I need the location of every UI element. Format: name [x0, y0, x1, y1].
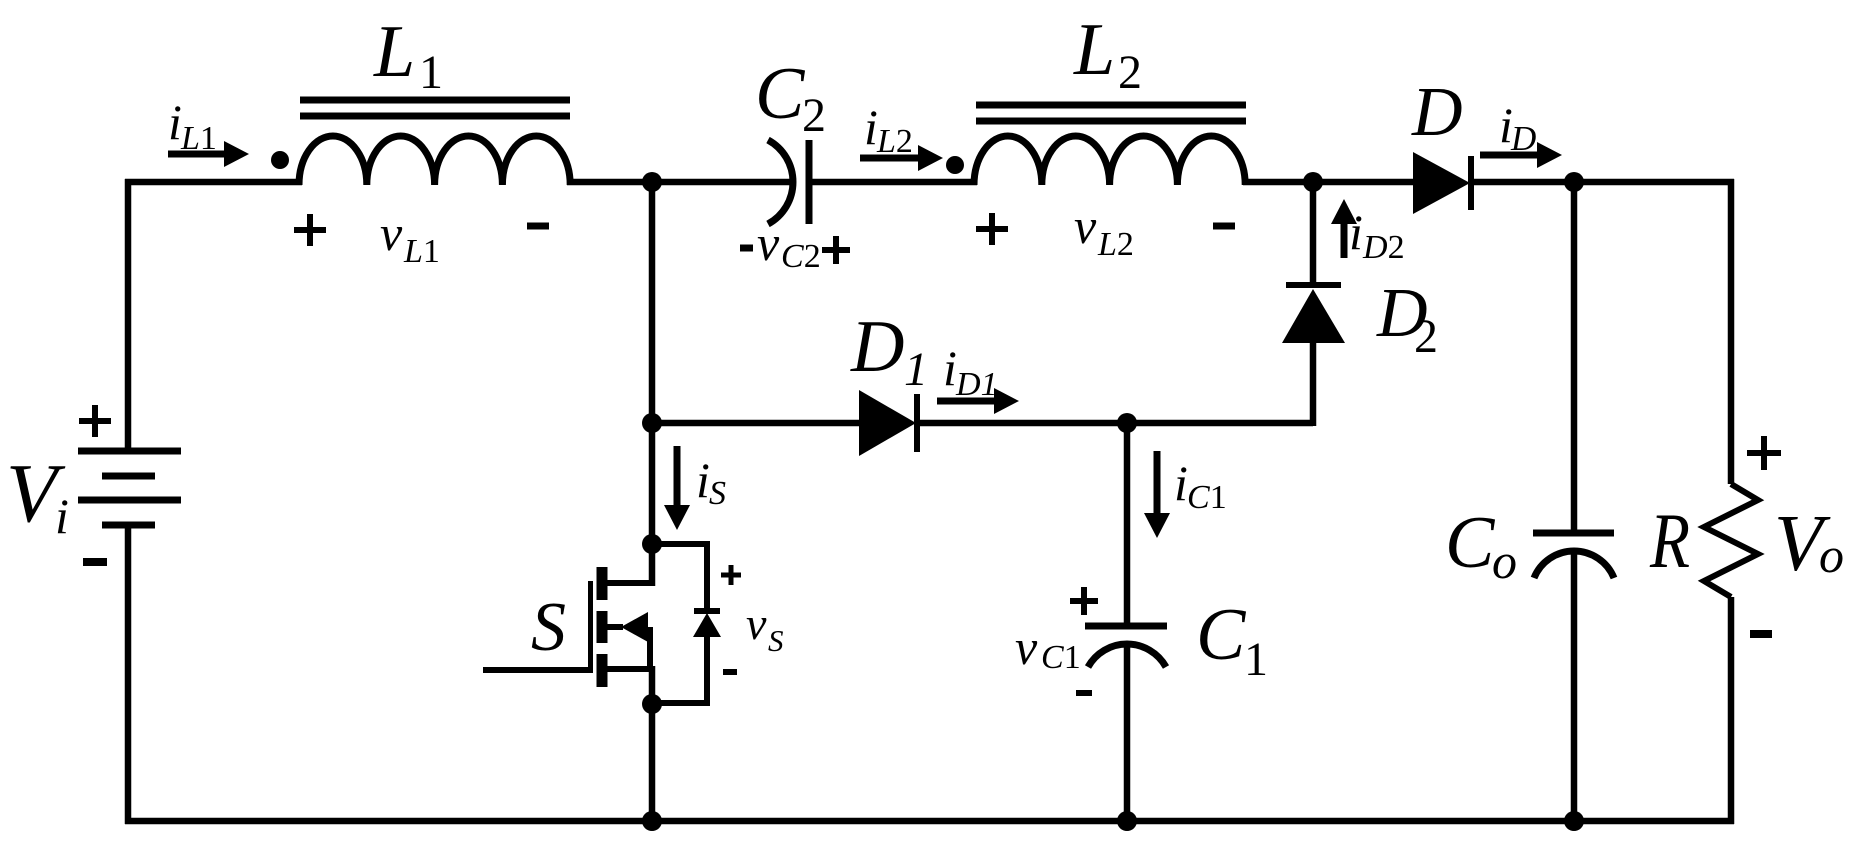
- arrow i_D1: [937, 398, 996, 405]
- svg-text:C1: C1: [1041, 639, 1081, 676]
- arrow i_D: [1480, 152, 1539, 159]
- svg-text:i: i: [864, 99, 878, 155]
- svg-text:L1: L1: [403, 233, 440, 270]
- capacitor C1 curved plate: [1088, 644, 1166, 667]
- svg-text:i: i: [168, 94, 182, 150]
- label C1 minus: [1076, 690, 1092, 696]
- body diode of S: top link: [652, 544, 707, 611]
- label v_C2 plus: [822, 236, 850, 264]
- svg-text:S: S: [768, 623, 784, 658]
- battery Vi plate 3 long: [78, 497, 181, 504]
- arrow i_L2: [860, 155, 920, 162]
- body diode bottom link: [652, 637, 707, 703]
- label v_L2 plus: [976, 213, 1008, 245]
- svg-text:v: v: [1015, 619, 1038, 675]
- svg-text:C: C: [755, 53, 806, 135]
- label Vi minus: [83, 558, 107, 566]
- wire C1 vertical upper: [1124, 423, 1131, 623]
- MOSFET S body drop wire: [647, 627, 653, 672]
- junction dot bottom Co: [1564, 811, 1584, 831]
- arrow i_D2: [1341, 222, 1348, 258]
- svg-text:L: L: [1073, 9, 1115, 91]
- svg-text:D1: D1: [955, 366, 998, 403]
- wire top rail C2 to L2: [809, 179, 977, 186]
- inductor L1 core bar upper: [300, 97, 570, 104]
- wire D1 rail right: [916, 420, 1313, 427]
- svg-text:R: R: [1649, 498, 1690, 585]
- arrow i_L1: [168, 151, 230, 158]
- label Vo plus: [1747, 436, 1781, 470]
- label v_S plus: [721, 565, 741, 585]
- svg-text:i: i: [943, 340, 957, 396]
- svg-text:o: o: [1492, 533, 1517, 589]
- arrow i_C1: [1154, 451, 1161, 516]
- battery Vi plate 2 short: [102, 473, 155, 480]
- svg-text:D: D: [850, 306, 904, 388]
- MOSFET S source lead: [602, 666, 652, 672]
- label v_L2 minus: [1213, 223, 1235, 230]
- inductor L2 polarity dot: [946, 156, 964, 174]
- svg-text:S: S: [709, 475, 726, 512]
- svg-text:v: v: [757, 215, 780, 271]
- svg-text:L: L: [373, 11, 415, 93]
- wire top rail L1 to C2: [567, 179, 791, 186]
- svg-text:D2: D2: [1362, 229, 1405, 266]
- inductor L1 coil: [299, 136, 570, 185]
- resistor R zigzag: [1704, 484, 1758, 597]
- wire left rail lower: [125, 525, 132, 824]
- wire right rail lower: [1728, 597, 1735, 824]
- capacitor Co curved plate: [1534, 551, 1614, 578]
- arrow i_S: [674, 446, 681, 508]
- diode D triangle: [1413, 152, 1470, 214]
- junction dot MOSFET drain: [642, 534, 662, 554]
- junction dot D1 left: [642, 413, 662, 433]
- wire bottom rail: [125, 818, 1734, 825]
- diode D2 triangle: [1282, 289, 1345, 343]
- label Vi plus: [79, 405, 111, 437]
- wire Co vertical upper: [1571, 182, 1578, 530]
- svg-text:C2: C2: [781, 238, 821, 275]
- MOSFET S channel segment top: [597, 567, 608, 600]
- svg-text:L2: L2: [876, 123, 913, 160]
- svg-text:v: v: [1074, 198, 1097, 254]
- wire D2 vertical upper: [1310, 182, 1317, 285]
- junction dot top node A: [642, 172, 662, 192]
- inductor L1 polarity dot: [271, 151, 289, 169]
- junction dot C1 top: [1117, 413, 1137, 433]
- label v_C2 minus: [740, 245, 753, 252]
- label v_L1 minus: [527, 223, 549, 230]
- junction dot MOSFET source: [642, 694, 662, 714]
- svg-text:v: v: [746, 598, 767, 649]
- wire D2 vertical lower: [1310, 343, 1317, 426]
- svg-text:2: 2: [802, 89, 826, 142]
- MOSFET S gate bar: [588, 581, 593, 673]
- svg-text:i: i: [1174, 455, 1188, 511]
- inductor L2 core bar lower: [976, 118, 1246, 125]
- svg-text:o: o: [1819, 527, 1844, 583]
- diode D cathode bar: [1468, 156, 1474, 210]
- body diode triangle: [693, 613, 721, 637]
- wire C1 vertical lower: [1124, 644, 1131, 821]
- capacitor Co straight plate: [1533, 530, 1614, 537]
- capacitor C2 curved plate: [768, 140, 793, 224]
- svg-text:1: 1: [1244, 633, 1268, 686]
- svg-text:v: v: [380, 205, 403, 261]
- label C1 plus: [1070, 587, 1098, 615]
- svg-text:2: 2: [1118, 46, 1142, 99]
- svg-text:C: C: [1445, 502, 1496, 584]
- junction dot bottom C1: [1117, 811, 1137, 831]
- MOSFET S body lead: [602, 624, 623, 630]
- wire top rail diode D to right corner: [1471, 179, 1734, 186]
- wire left rail upper: [125, 179, 132, 451]
- MOSFET S gate lead: [483, 667, 593, 673]
- wire top rail L2 to diode D: [1243, 179, 1413, 186]
- svg-text:L2: L2: [1097, 226, 1134, 263]
- wire node-A vertical upper (x=652): [649, 182, 656, 586]
- svg-text:i: i: [55, 488, 69, 544]
- capacitor C1 straight plate: [1085, 623, 1167, 630]
- junction dot bottom node A: [642, 811, 662, 831]
- diode D1 cathode bar: [914, 394, 920, 452]
- inductor L2 coil: [974, 136, 1245, 185]
- inductor L1 core bar lower: [300, 113, 570, 120]
- wire D1 rail left: [652, 420, 860, 427]
- svg-text:2: 2: [1414, 310, 1438, 363]
- battery Vi plate 4 short: [102, 522, 155, 529]
- inductor L2 core bar upper: [976, 102, 1246, 109]
- svg-text:C1: C1: [1187, 479, 1227, 516]
- wire node-A vertical lower (x=652): [649, 666, 656, 821]
- svg-text:1: 1: [419, 46, 443, 99]
- MOSFET S drain lead: [602, 583, 652, 586]
- svg-text:i: i: [1349, 204, 1363, 260]
- diode D1 triangle: [859, 390, 916, 456]
- svg-text:1: 1: [904, 343, 928, 396]
- svg-text:i: i: [696, 452, 710, 508]
- junction dot top Co: [1564, 172, 1584, 192]
- capacitor C2 straight plate: [806, 140, 813, 224]
- MOSFET S channel segment bottom: [597, 654, 608, 687]
- label v_S minus: [723, 669, 737, 675]
- diode D2 cathode bar: [1286, 282, 1341, 288]
- svg-text:C: C: [1196, 594, 1247, 676]
- battery Vi plate 1 long: [78, 448, 181, 455]
- junction dot top D2: [1303, 172, 1323, 192]
- label v_L1 plus: [294, 214, 326, 246]
- body diode cathode bar: [694, 608, 720, 614]
- svg-text:S: S: [531, 589, 566, 666]
- wire right rail upper: [1728, 179, 1735, 484]
- wire Co vertical lower: [1571, 551, 1578, 821]
- MOSFET S body arrow: [621, 612, 648, 642]
- wire top rail left segment: [125, 179, 302, 186]
- svg-text:D: D: [1411, 74, 1463, 151]
- label Vo minus: [1750, 630, 1772, 638]
- MOSFET S channel segment middle: [597, 611, 608, 643]
